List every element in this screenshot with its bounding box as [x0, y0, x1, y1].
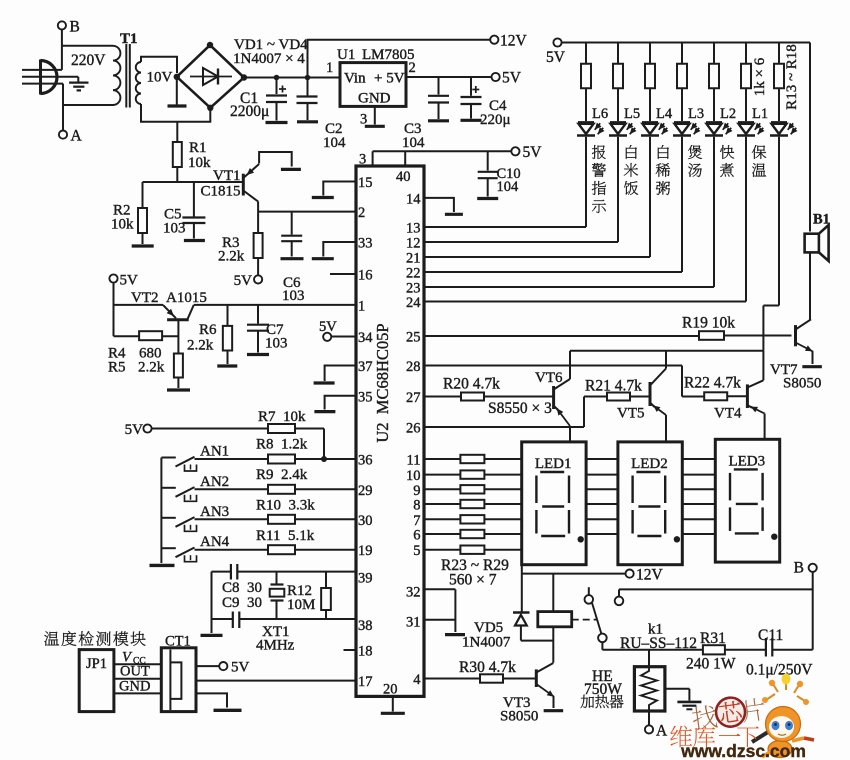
U2 pin 8 number [413, 498, 420, 514]
svg-text:32: 32 [406, 584, 421, 600]
svg-text:220μ: 220μ [480, 112, 511, 128]
ground crystal [201, 572, 223, 636]
resistor R6 [217, 305, 237, 366]
R12 label [287, 583, 315, 613]
svg-text:VT1: VT1 [213, 168, 241, 184]
C5 label [163, 207, 186, 237]
resistor R30 [424, 674, 536, 682]
svg-text:35: 35 [358, 389, 373, 405]
svg-text:A: A [71, 128, 83, 145]
U2 pin35 ground stub [314, 396, 356, 412]
CT1 label [165, 634, 191, 650]
svg-text:12V: 12V [636, 567, 664, 584]
resistor R10 [195, 515, 357, 524]
heater cjk label [581, 695, 624, 709]
U1 label [337, 47, 415, 63]
watermark mascot [752, 674, 814, 758]
terminal B [58, 19, 80, 36]
svg-text:R1: R1 [189, 140, 207, 156]
U2 pin 10 number [406, 468, 421, 484]
transistor VT5 [650, 351, 666, 442]
relay lever [592, 603, 601, 634]
wire pin26 to R21 [424, 397, 607, 428]
svg-text:RU–SS–112: RU–SS–112 [620, 635, 697, 652]
U2 pin 20 number [383, 682, 398, 698]
svg-text:R13 ~ R18: R13 ~ R18 [784, 44, 800, 110]
svg-text:11: 11 [407, 453, 421, 469]
U2 pin 35 number [358, 389, 373, 405]
wire 5V output rail [406, 76, 492, 78]
MCU U2 box [356, 166, 424, 696]
temperature module title [44, 631, 145, 646]
resistor R4 [114, 331, 179, 340]
terminal 5V VT2 [109, 273, 138, 289]
terminal 5V mcu [511, 144, 542, 161]
svg-text:4: 4 [413, 672, 421, 688]
resistor R7 [152, 424, 327, 462]
pushbutton AN4 [161, 548, 196, 562]
U2 pin 6 number [413, 528, 420, 544]
JP1 label [86, 656, 107, 672]
svg-text:103: 103 [282, 288, 305, 304]
svg-text:22: 22 [406, 266, 421, 282]
watermark stamp [690, 693, 766, 732]
U1 ground [365, 106, 385, 126]
U2 pin 31 number [406, 615, 421, 631]
svg-text:S8050: S8050 [500, 709, 538, 725]
capacitor C1 [266, 78, 288, 123]
heater ground [665, 689, 702, 710]
relay link [572, 619, 598, 621]
wire U2 pin2 line [258, 211, 356, 213]
relay common [598, 634, 703, 650]
svg-text:AN4: AN4 [200, 534, 230, 550]
svg-text:5V: 5V [234, 273, 253, 289]
R3 label [218, 235, 245, 265]
resistor R14 [613, 43, 623, 122]
capacitor C9 [233, 612, 240, 629]
terminal 5V buttons [125, 422, 152, 438]
U2 pin32 pin31 ground [424, 589, 465, 634]
transformer T1 label [120, 31, 138, 47]
svg-text:33: 33 [358, 236, 373, 252]
wire VT1 base node [143, 181, 244, 183]
wire JP1 GND [114, 692, 161, 694]
LED L6 label [592, 106, 608, 122]
svg-text:1: 1 [326, 60, 333, 76]
wire LED branch L3 to pin [424, 137, 682, 272]
U2 pin 30 number [358, 513, 373, 529]
terminal 5V main [492, 70, 522, 87]
svg-text:VT4: VT4 [714, 406, 742, 422]
R23-R29 label [441, 557, 509, 589]
connector JP1 box [79, 650, 114, 712]
svg-text:L4: L4 [656, 106, 673, 122]
svg-text:B1: B1 [813, 212, 830, 228]
svg-text:VT2: VT2 [131, 290, 159, 306]
svg-text:JP1: JP1 [86, 656, 107, 672]
resistor R17 [709, 43, 719, 122]
label 煲汤 [688, 145, 702, 177]
svg-text:R8 1.2k: R8 1.2k [256, 437, 308, 453]
U2 pin 39 number [358, 571, 373, 587]
wire 5V to MCU [373, 150, 512, 152]
Vcc label [122, 650, 146, 667]
LED L1 [737, 122, 765, 135]
svg-text:L5: L5 [624, 106, 640, 122]
pushbutton AN1 [161, 457, 196, 471]
ground at bridge left vertex [168, 77, 187, 106]
R10 label [256, 498, 315, 514]
U2 pin33 ground stub [312, 242, 356, 259]
svg-text:S8550 × 3: S8550 × 3 [488, 400, 552, 417]
R9 label [256, 467, 308, 483]
pushbutton AN3 [161, 517, 196, 531]
LED L3 label [688, 106, 704, 122]
svg-text:B: B [70, 19, 80, 36]
svg-text:103: 103 [265, 336, 288, 352]
U2 pin 21 number [406, 251, 421, 267]
C6 label [282, 275, 305, 304]
svg-text:14: 14 [406, 191, 421, 207]
U2 pin 12 number [406, 236, 421, 252]
AN3 label [200, 504, 229, 520]
svg-text:104: 104 [402, 135, 425, 151]
U2 pin 37 number [358, 359, 373, 375]
svg-text:LM7805: LM7805 [362, 47, 415, 63]
svg-text:25: 25 [406, 330, 421, 346]
svg-text:R20 4.7k: R20 4.7k [443, 376, 500, 393]
svg-text:6: 6 [413, 528, 420, 544]
wire 12V display rail [522, 565, 626, 612]
wire bridge output rail [244, 75, 340, 81]
svg-text:8: 8 [413, 498, 420, 514]
svg-text:7: 7 [413, 513, 420, 529]
resistor R31 [703, 645, 765, 654]
svg-text:R5: R5 [108, 360, 126, 376]
svg-text:5V: 5V [231, 660, 250, 676]
svg-text:220V: 220V [71, 52, 106, 69]
svg-text:240 1W: 240 1W [686, 656, 736, 673]
svg-text:R11 5.1k: R11 5.1k [256, 528, 315, 544]
U2 pin 19 number [358, 543, 373, 559]
svg-text:5V: 5V [523, 144, 543, 161]
svg-text:OUT: OUT [120, 664, 150, 680]
wire A to plug and primary bottom [63, 84, 113, 131]
label 快煮 [720, 145, 734, 177]
U1 pin 1 [326, 60, 333, 76]
terminal A bottom [645, 723, 668, 740]
svg-text:GND: GND [358, 91, 391, 107]
U2 pin 34 number [358, 330, 373, 346]
svg-text:VT6: VT6 [535, 370, 563, 386]
svg-text:16: 16 [358, 268, 373, 284]
R6 label [187, 322, 217, 354]
svg-text:LED2: LED2 [631, 456, 668, 472]
C10 value label [497, 166, 521, 195]
terminal 5V CT1 [196, 660, 250, 676]
resistor R20 [424, 393, 554, 401]
svg-text:18: 18 [358, 644, 373, 660]
svg-text:R10 3.3k: R10 3.3k [256, 498, 315, 514]
AN2 label [200, 474, 229, 490]
U2 pin 11 number [407, 453, 421, 469]
wire U2 pin1 line [194, 304, 356, 306]
wire JP1 OUT [114, 678, 161, 680]
label 保温 [752, 145, 766, 177]
svg-text:C9 30: C9 30 [222, 595, 262, 611]
heater HE [634, 650, 665, 726]
resistor R18b [774, 43, 784, 122]
svg-text:5V: 5V [502, 70, 522, 87]
transistor VT4 [747, 351, 764, 440]
LED L5 [609, 122, 637, 135]
button common bus [150, 458, 175, 566]
svg-text:37: 37 [358, 359, 373, 375]
svg-text:9: 9 [413, 483, 420, 499]
capacitor C2 [297, 78, 319, 122]
wire driver emitter rail [570, 350, 763, 352]
svg-text:C1815: C1815 [201, 184, 241, 200]
transistor VT3 [536, 663, 563, 711]
svg-text:29: 29 [358, 483, 373, 499]
resistor R16 [677, 43, 687, 122]
svg-text:A1015: A1015 [166, 290, 207, 306]
R11 label [256, 528, 315, 544]
resistor R18 [741, 43, 751, 122]
VT2 label [131, 290, 207, 306]
10V label [147, 70, 173, 86]
R2 label [111, 203, 134, 233]
svg-text:AN3: AN3 [200, 504, 229, 520]
terminal 12V bottom [626, 567, 664, 584]
wire segment bus LED1-LED2 [586, 459, 618, 534]
svg-text:U1: U1 [337, 47, 355, 63]
R21 label [585, 378, 642, 395]
terminal B right [794, 560, 817, 577]
svg-text:38: 38 [358, 618, 373, 634]
svg-text:0.1μ/250V: 0.1μ/250V [746, 662, 813, 679]
svg-text:36: 36 [358, 453, 373, 469]
svg-text:10V: 10V [147, 70, 173, 86]
svg-text:104: 104 [323, 135, 346, 151]
svg-text:Vin: Vin [344, 71, 366, 87]
U2 pin 1 number [358, 298, 365, 314]
U2 pin14 ground stub [424, 198, 463, 214]
svg-text:1N4007 × 4: 1N4007 × 4 [233, 51, 305, 67]
svg-text:4MHz: 4MHz [256, 638, 295, 654]
regulator U1 LM7805 [340, 63, 406, 107]
svg-text:34: 34 [358, 330, 373, 346]
svg-text:A: A [656, 723, 668, 740]
U2 pin 9 number [413, 483, 420, 499]
VT4 label [714, 406, 742, 422]
terminal 5V R3 [234, 273, 263, 289]
svg-text:17: 17 [358, 674, 373, 690]
wire pin39 line [212, 571, 357, 573]
svg-text:5V: 5V [120, 273, 139, 289]
svg-text:R30 4.7k: R30 4.7k [459, 659, 516, 676]
svg-text:T1: T1 [120, 31, 138, 47]
U2 pin 2 number [358, 205, 365, 221]
wire B1 to VT7 [809, 252, 811, 319]
wire LED branch L5 to pin [424, 137, 618, 242]
U2 pin 28 number [406, 359, 421, 375]
svg-text:2.2k: 2.2k [218, 249, 245, 265]
svg-text:1k × 6: 1k × 6 [752, 57, 768, 96]
transformer T1 primary winding [113, 46, 121, 105]
resistor R9 [195, 485, 357, 494]
transistor VT2 [163, 305, 194, 354]
C3 value label [402, 121, 425, 151]
svg-text:24: 24 [406, 295, 421, 311]
C2 value label [323, 121, 346, 151]
U2 pin 40 stub [396, 151, 411, 185]
wire pin38 line [212, 618, 357, 620]
wire B down [812, 572, 814, 650]
resistor R21 [607, 393, 650, 401]
U2 pin 5 number [413, 543, 420, 559]
svg-text:VT5: VT5 [617, 406, 645, 422]
resistor R2 [132, 182, 154, 246]
U2 pin 29 number [358, 483, 373, 499]
U2 pin 27 number [406, 390, 421, 406]
LED L5 label [624, 106, 640, 122]
svg-text:5V: 5V [319, 319, 337, 335]
GND label [119, 678, 150, 694]
svg-text:R9 2.4k: R9 2.4k [256, 467, 308, 483]
CT1 ground [196, 693, 242, 710]
svg-text:103: 103 [163, 221, 186, 237]
transformer T1 secondary winding [136, 62, 141, 104]
wire LED branch L6 to pin [424, 137, 586, 227]
svg-text:560 × 7: 560 × 7 [449, 572, 497, 589]
speaker B1 [805, 225, 829, 261]
U2 pin 24 number [406, 295, 421, 311]
svg-text:2200μ: 2200μ [230, 103, 269, 120]
crystal XT1 [270, 572, 285, 619]
svg-text:2: 2 [358, 205, 365, 221]
LED extra [770, 122, 798, 135]
R22 label [684, 375, 741, 392]
U2 pin 38 number [358, 618, 373, 634]
VT6 label [535, 370, 563, 386]
svg-text:39: 39 [358, 571, 373, 587]
svg-text:C8 30: C8 30 [222, 580, 262, 596]
resistor R13 [581, 43, 591, 122]
wire B to plug and primary top [22, 30, 113, 70]
svg-text:104: 104 [497, 179, 520, 195]
svg-text:L3: L3 [688, 106, 704, 122]
resistor R15 [645, 43, 655, 122]
svg-text:1: 1 [358, 298, 365, 314]
bridge rectifier VD1-VD4 [174, 42, 248, 111]
R7 label [258, 409, 306, 425]
svg-text:www.dzsc.com: www.dzsc.com [680, 741, 806, 760]
relay contact NO [615, 589, 813, 605]
svg-text:20: 20 [383, 682, 398, 698]
svg-text:GND: GND [119, 678, 150, 694]
VT7 label [770, 362, 821, 392]
svg-text:3: 3 [359, 152, 366, 168]
VT3 label [500, 695, 538, 725]
svg-text:15: 15 [358, 175, 373, 191]
U1 pin 2 [409, 60, 416, 76]
transistor VT7 [796, 319, 822, 366]
VD5 label [462, 620, 511, 651]
watermark weiku text [670, 725, 759, 747]
XT1 label [256, 624, 295, 654]
U2 pin 14 number [406, 191, 421, 207]
U2 pin37 ground stub [314, 366, 356, 384]
transformer T1 core [126, 44, 130, 108]
U2 pin 4 number [413, 672, 421, 688]
svg-text:LED1: LED1 [535, 456, 572, 472]
VT5 label [617, 406, 645, 422]
transistor VT1 [243, 152, 301, 212]
LED L6 [577, 122, 605, 135]
capacitor C5 [182, 182, 205, 241]
wire secondary bottom rail [141, 104, 210, 122]
svg-text:R6: R6 [199, 322, 217, 338]
U2 pin 18 number [358, 644, 373, 660]
svg-text:AN2: AN2 [200, 474, 229, 490]
capacitor C4 [461, 77, 482, 120]
wire LED branch 7 to driver rail [763, 137, 779, 351]
svg-text:B: B [794, 560, 804, 577]
LED L1 label [752, 106, 768, 122]
svg-text:5V: 5V [546, 49, 566, 66]
C11 label [746, 627, 813, 679]
svg-text:C11: C11 [758, 627, 783, 644]
U2 pin 23 number [406, 281, 421, 297]
wire JP1 Vcc [114, 663, 161, 665]
VD1-VD4 label [233, 37, 308, 67]
U2 pin 32 number [406, 584, 421, 600]
LED L3 [673, 122, 701, 135]
svg-text:10: 10 [406, 468, 421, 484]
wire 12V feed [308, 40, 491, 78]
C4 value label [480, 98, 511, 128]
U2 pin18 stub [344, 649, 357, 651]
wire 5V to VT2 [114, 283, 164, 337]
capacitor C8 [231, 564, 237, 580]
U2 pin 15 number [358, 175, 373, 191]
U2 pin 36 number [358, 453, 373, 469]
capacitor C11 [766, 638, 813, 657]
capacitor C6 [281, 212, 304, 259]
capacitor C7 [247, 305, 269, 355]
label 报警指示 [592, 145, 606, 213]
watermark url [680, 741, 806, 760]
svg-text:R31: R31 [700, 630, 726, 647]
LED L4 [641, 122, 669, 135]
LED L4 label [656, 106, 673, 122]
svg-text:R21 4.7k: R21 4.7k [585, 378, 642, 395]
svg-text:1N4007: 1N4007 [462, 635, 511, 651]
220V label [71, 52, 106, 69]
wire pin17 line [196, 680, 356, 682]
pushbutton AN2 [161, 487, 196, 501]
svg-text:2.2k: 2.2k [187, 338, 214, 354]
svg-text:+ 5V: + 5V [374, 71, 405, 87]
mains plug [22, 60, 78, 95]
wire LED branch L4 to pin [424, 137, 650, 257]
resistor R22 [704, 392, 747, 400]
svg-text:2.2k: 2.2k [138, 360, 165, 376]
terminal 5V leds [546, 38, 566, 66]
display LED2 [618, 442, 682, 565]
